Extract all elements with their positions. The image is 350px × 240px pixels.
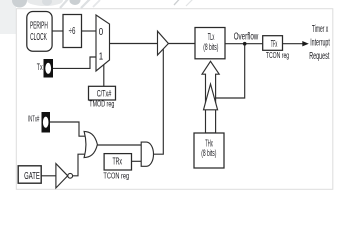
register C/Tx# (TMOD) bbox=[89, 86, 116, 100]
wire AND gate output to buffer control bbox=[153, 49, 163, 154]
box PERIPH CLOCK bbox=[27, 12, 52, 52]
svg-text:(8 bits): (8 bits) bbox=[203, 42, 218, 52]
watermark blobs (decorative) bbox=[0, 0, 193, 34]
svg-text:CLOCK: CLOCK bbox=[30, 32, 47, 43]
svg-text:PERIPH: PERIPH bbox=[30, 20, 48, 31]
mux bbox=[96, 15, 110, 71]
wire Tx pin to mux input 1 bbox=[53, 57, 96, 68]
register TRx (TCON) bbox=[104, 154, 131, 170]
svg-text:GATE: GATE bbox=[24, 170, 40, 182]
register TLx bbox=[195, 28, 225, 59]
svg-text:Request: Request bbox=[309, 51, 329, 62]
svg-text:TFx: TFx bbox=[271, 39, 278, 50]
divider ÷6 bbox=[63, 15, 82, 48]
box GATE bbox=[18, 166, 41, 183]
wire INTx# pin to OR gate top input bbox=[50, 122, 85, 136]
svg-text:(8 bits): (8 bits) bbox=[201, 148, 216, 158]
svg-text:Tx: Tx bbox=[37, 62, 43, 72]
OR gate bbox=[84, 131, 97, 157]
wire OR gate output to AND gate input bbox=[97, 144, 141, 146]
svg-text:TCON reg: TCON reg bbox=[266, 50, 290, 60]
svg-text:Interrupt: Interrupt bbox=[310, 37, 330, 48]
svg-text:÷6: ÷6 bbox=[69, 26, 76, 37]
register THx bbox=[194, 133, 224, 168]
wire PERIPH CLOCK to divider bbox=[52, 30, 63, 32]
svg-text:1: 1 bbox=[99, 50, 104, 62]
reload arrow THx to TLx bbox=[202, 61, 219, 133]
node overflow junction bbox=[243, 42, 247, 46]
wire mux output to buffer bbox=[110, 43, 158, 45]
wire TRx register to AND gate input bbox=[132, 160, 142, 162]
register TFx (TCON) bbox=[263, 36, 283, 51]
wire GATE to inverter bbox=[41, 175, 56, 177]
wire inverter to OR gate bottom input bbox=[73, 154, 85, 176]
wire mux select to C/Tx# register bbox=[103, 65, 105, 87]
AND gate bbox=[141, 142, 153, 166]
svg-text:INTx#: INTx# bbox=[28, 115, 40, 124]
svg-text:TRx: TRx bbox=[112, 157, 122, 168]
reload control triangle bbox=[204, 84, 218, 110]
arrowhead interrupt request bbox=[302, 41, 309, 46]
wire TFx to interrupt arrow bbox=[283, 43, 304, 45]
inverter bbox=[56, 164, 68, 188]
wire TLx to TFx with overflow junction bbox=[225, 43, 263, 45]
wire reload trigger from overflow junction bbox=[215, 44, 245, 98]
svg-text:TCON reg: TCON reg bbox=[103, 170, 129, 180]
svg-text:TMOD reg: TMOD reg bbox=[89, 98, 114, 108]
figure frame (decorative) bbox=[16, 9, 333, 190]
svg-text:Overflow: Overflow bbox=[234, 31, 259, 42]
buffer (gated clock) bbox=[158, 31, 169, 55]
svg-text:0: 0 bbox=[99, 26, 104, 38]
svg-text:Timer x: Timer x bbox=[312, 24, 328, 35]
wire buffer to TLx bbox=[168, 43, 195, 45]
wire divider to mux input 0 bbox=[82, 30, 97, 32]
